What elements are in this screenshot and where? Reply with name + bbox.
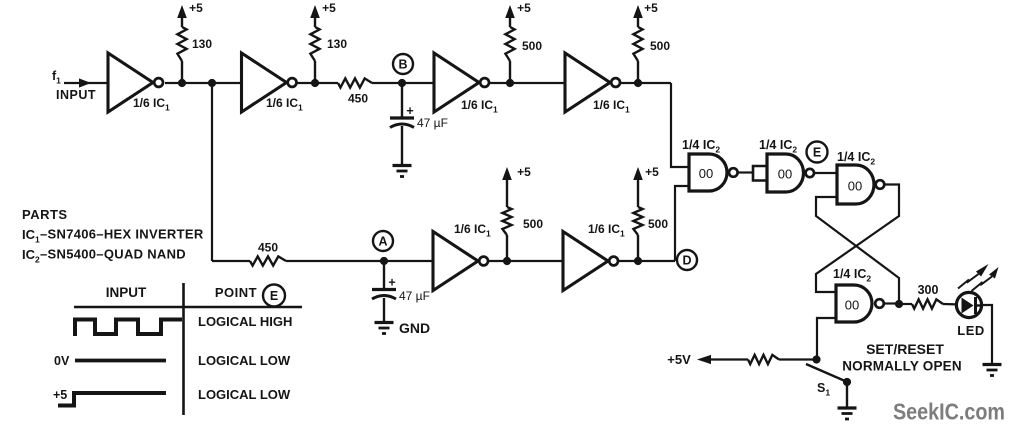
svg-text:B: B — [398, 58, 407, 72]
resistor R4 500 — [505, 27, 514, 83]
wire U2D lower input — [817, 318, 836, 360]
junction dot R2 — [311, 79, 319, 87]
label 1/6 IC1 (U1D) — [593, 98, 630, 115]
wire U2D out — [884, 302, 899, 304]
wire U2C lower input crossover — [816, 197, 899, 304]
svg-text:+5: +5 — [322, 1, 336, 15]
power +5 arrow R1 — [177, 5, 187, 27]
svg-text:1/6 IC1: 1/6 IC1 — [588, 222, 625, 239]
wire top to NAND1 upper — [671, 83, 689, 167]
LED D1 — [956, 292, 981, 317]
svg-text:0V: 0V — [54, 354, 70, 368]
wire U1A out — [165, 82, 242, 84]
svg-text:00: 00 — [778, 167, 792, 182]
svg-text:D: D — [682, 254, 691, 268]
waveform 0V line — [75, 359, 166, 363]
label 00 (U2B) — [778, 167, 792, 182]
resistor R8 500 — [633, 207, 642, 261]
svg-text:LOGICAL LOW: LOGICAL LOW — [198, 387, 291, 402]
op-amp inverter U1F (1/6 IC1) — [563, 232, 618, 291]
label 00 (U2D) — [845, 298, 859, 313]
svg-text:130: 130 — [192, 37, 212, 51]
label 00 (U2C) — [848, 179, 862, 194]
nand gate U2C (1/4 IC2) — [837, 165, 884, 204]
svg-text:00: 00 — [848, 179, 862, 194]
svg-text:00: 00 — [699, 166, 713, 181]
svg-text:1/6 IC1: 1/6 IC1 — [461, 98, 498, 115]
svg-text:INPUT: INPUT — [106, 285, 147, 300]
power +5 arrow R5 — [633, 5, 643, 27]
svg-text:LOGICAL LOW: LOGICAL LOW — [198, 353, 291, 368]
node f1 INPUT — [52, 69, 96, 102]
svg-text:LED: LED — [957, 323, 985, 338]
junction dot out — [895, 300, 903, 308]
label LOGICAL LOW row3 — [198, 387, 291, 402]
svg-text:450: 450 — [258, 241, 278, 255]
label +5 (R7) — [517, 165, 531, 179]
label SET/RESET — [866, 341, 944, 357]
svg-text:NORMALLY OPEN: NORMALLY OPEN — [842, 359, 962, 374]
wire R3 to B — [372, 82, 434, 84]
LED light arrow 1 — [958, 264, 989, 289]
label PARTS — [22, 207, 68, 222]
resistor R10 — [748, 355, 779, 364]
nand gate U2D (1/4 IC2) — [836, 285, 884, 322]
switch S1 contact — [843, 378, 851, 386]
label +5 (R5) — [644, 1, 658, 15]
input arrowhead — [79, 78, 91, 87]
power +5 arrow R2 — [310, 5, 320, 27]
power +5 arrow R8 — [633, 167, 643, 207]
svg-text:47 µF: 47 µF — [417, 116, 448, 130]
svg-text:–SN7406–HEX INVERTER: –SN7406–HEX INVERTER — [40, 227, 204, 242]
svg-text:INPUT: INPUT — [56, 88, 96, 102]
wire U2C out crossover — [816, 185, 899, 293]
wire branch down — [211, 83, 213, 261]
label LOGICAL HIGH — [198, 314, 292, 329]
label IC2 line — [22, 247, 186, 265]
label 450 (R3) — [348, 92, 368, 106]
svg-text:POINT: POINT — [215, 285, 257, 300]
label S1 — [817, 381, 830, 398]
svg-text:1/6 IC1: 1/6 IC1 — [454, 222, 491, 239]
power +5 arrow R4 — [505, 5, 515, 27]
wire branch to R6 — [212, 260, 250, 262]
label 1/6 IC1 (U1B) — [266, 96, 303, 113]
svg-text:1/4 IC2: 1/4 IC2 — [759, 138, 797, 155]
label 00 (U2A) — [699, 166, 713, 181]
label LOGICAL LOW row2 — [198, 353, 291, 368]
label 500 (R7) — [523, 217, 543, 231]
label GND — [399, 320, 430, 336]
resistor R3 450 — [338, 78, 372, 87]
svg-text:47 µF: 47 µF — [399, 289, 430, 303]
op-amp inverter U1E (1/6 IC1) — [433, 232, 488, 291]
wire LED to gnd — [982, 305, 992, 365]
label 1/4 IC2 (U2A) — [682, 138, 720, 155]
svg-text:130: 130 — [327, 37, 347, 51]
wire R10 to junction — [779, 358, 817, 360]
wire input — [64, 82, 108, 84]
svg-text:1/4 IC2: 1/4 IC2 — [682, 138, 720, 155]
node E circle — [807, 142, 828, 163]
label 500 (R8) — [648, 217, 668, 231]
nand gate U2A (1/4 IC2) — [689, 154, 738, 191]
watermark SeekIC.com — [893, 399, 1005, 425]
table header INPUT — [106, 285, 147, 300]
label 1/4 IC2 (U2C) — [837, 150, 875, 167]
label 47uF (C1) — [417, 116, 448, 130]
svg-text:SET/RESET: SET/RESET — [866, 341, 944, 357]
label 130 (R2) — [327, 37, 347, 51]
svg-text:S1: S1 — [817, 381, 830, 398]
label +5 (R1) — [189, 1, 203, 15]
ground S1 — [838, 408, 857, 419]
wire U1C out — [490, 82, 565, 84]
label IC1 line — [22, 227, 204, 245]
junction node A — [380, 257, 388, 265]
wire B to cap — [401, 83, 403, 118]
label +5 (R8) — [645, 165, 659, 179]
wire U2B out to U2C — [814, 172, 837, 174]
op-amp inverter U1D (1/6 IC1) — [565, 53, 620, 112]
node D circle — [677, 250, 697, 270]
wire cap to gnd — [401, 126, 403, 166]
wire bottom to NAND1 lower — [675, 186, 689, 261]
label 47uF (C2) — [399, 289, 430, 303]
label 1/4 IC2 (U2D) — [833, 267, 871, 284]
node E circle (table) — [263, 285, 285, 307]
nand gate U2B (1/4 IC2) — [767, 154, 814, 192]
switch S1 arm — [806, 364, 845, 381]
junction node B — [398, 79, 406, 87]
svg-text:PARTS: PARTS — [22, 207, 68, 222]
label +5 (R2) — [322, 1, 336, 15]
label 130 (R1) — [192, 37, 212, 51]
wire U1E out — [489, 260, 563, 262]
wire R9 to LED — [943, 303, 961, 306]
svg-text:500: 500 — [650, 39, 670, 53]
node B circle — [393, 54, 413, 74]
svg-text:A: A — [378, 235, 387, 249]
wire U1B out — [297, 82, 338, 84]
label 1/6 IC1 (U1E) — [454, 222, 491, 239]
label +5 row3 — [53, 388, 67, 402]
svg-text:500: 500 — [523, 217, 543, 231]
ground C2 — [375, 323, 394, 334]
label 500 (R5) — [650, 39, 670, 53]
op-amp inverter U1C (1/6 IC1) — [434, 53, 489, 112]
ground C1 — [393, 166, 412, 177]
resistor R6 450 — [250, 256, 286, 265]
resistor R5 500 — [633, 27, 642, 83]
label NORMALLY OPEN — [842, 359, 962, 374]
svg-text:E: E — [813, 146, 821, 160]
wire R6 to A — [286, 260, 433, 262]
svg-text:GND: GND — [399, 320, 430, 336]
wire to R9 — [899, 303, 912, 305]
capacitor C2 47uF — [372, 276, 396, 300]
junction dot — [178, 79, 186, 87]
svg-text:450: 450 — [348, 92, 368, 106]
svg-text:SeekIC.com: SeekIC.com — [893, 399, 1005, 425]
svg-text:+5: +5 — [645, 165, 659, 179]
svg-text:300: 300 — [918, 283, 939, 297]
junction dot R5 — [634, 79, 642, 87]
label +5 (R4) — [517, 1, 531, 15]
power arrow +5V — [697, 355, 748, 364]
svg-text:1/6 IC1: 1/6 IC1 — [133, 96, 170, 113]
table vertical line — [182, 283, 185, 415]
label 1/6 IC1 (U1C) — [461, 98, 498, 115]
wire U1D out — [621, 82, 671, 84]
op-amp inverter U1B (1/6 IC1) — [242, 53, 297, 112]
label 300 (R9) — [918, 283, 939, 297]
label LED — [957, 323, 985, 338]
svg-text:f1: f1 — [52, 69, 61, 86]
svg-text:500: 500 — [522, 39, 542, 53]
LED light arrow 2 — [972, 267, 999, 291]
label +5V — [667, 352, 691, 367]
resistor R2 130 — [310, 27, 319, 83]
wire U2A out — [738, 171, 753, 173]
svg-text:+5V: +5V — [667, 352, 691, 367]
junction dot switch — [812, 355, 820, 363]
label 500 (R4) — [522, 39, 542, 53]
table header underline — [74, 306, 302, 308]
tied-input bracket U2B — [753, 166, 767, 181]
wire S1 to gnd — [846, 384, 848, 408]
ground LED — [983, 365, 1002, 376]
waveform +5 step — [58, 393, 166, 406]
resistor R1 130 — [177, 27, 186, 83]
waveform square wave input — [75, 320, 182, 337]
svg-text:+5: +5 — [517, 165, 531, 179]
svg-text:IC2: IC2 — [22, 247, 40, 265]
junction dot R7 — [503, 257, 511, 265]
svg-text:+5: +5 — [517, 1, 531, 15]
svg-text:+5: +5 — [644, 1, 658, 15]
svg-text:LOGICAL HIGH: LOGICAL HIGH — [198, 314, 292, 329]
table header POINT — [215, 285, 257, 300]
svg-text:+5: +5 — [53, 388, 67, 402]
power +5 arrow R7 — [502, 167, 512, 207]
label 1/6 IC1 (U1A) — [133, 96, 170, 113]
wire A to cap — [383, 261, 385, 290]
svg-text:1/4 IC2: 1/4 IC2 — [833, 267, 871, 284]
resistor R7 500 — [502, 207, 511, 261]
svg-text:500: 500 — [648, 217, 668, 231]
label 1/4 IC2 (U2B) — [759, 138, 797, 155]
wire cap2 to gnd — [383, 298, 385, 323]
svg-text:–SN5400–QUAD NAND: –SN5400–QUAD NAND — [40, 247, 186, 262]
node A circle — [373, 231, 393, 251]
junction dot R8 — [634, 257, 642, 265]
svg-text:IC1: IC1 — [22, 227, 40, 245]
svg-text:1/6 IC1: 1/6 IC1 — [266, 96, 303, 113]
wire U1F out — [619, 260, 675, 262]
svg-text:+5: +5 — [189, 1, 203, 15]
svg-text:E: E — [270, 289, 278, 303]
junction dot R4 — [506, 79, 514, 87]
svg-text:+: + — [406, 104, 413, 118]
svg-text:1/6 IC1: 1/6 IC1 — [593, 98, 630, 115]
junction dot branch — [208, 79, 216, 87]
label 1/6 IC1 (U1F) — [588, 222, 625, 239]
op-amp inverter U1A (1/6 IC1) — [108, 53, 163, 112]
capacitor C1 47uF — [390, 104, 414, 128]
label 450 (R6) — [258, 241, 278, 255]
resistor R9 300 — [912, 299, 943, 308]
svg-text:+: + — [388, 276, 395, 290]
svg-text:00: 00 — [845, 298, 859, 313]
label 0V — [54, 354, 70, 368]
